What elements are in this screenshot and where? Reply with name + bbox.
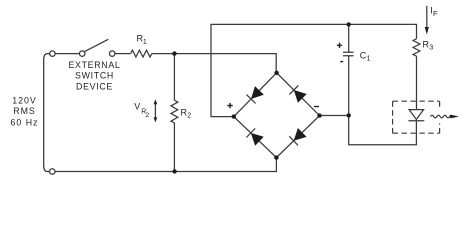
svg-text:F: F <box>433 9 438 18</box>
svg-text:V: V <box>134 102 140 112</box>
svg-text:1: 1 <box>143 39 147 46</box>
svg-text:EXTERNAL: EXTERNAL <box>68 60 120 70</box>
svg-text:60 Hz: 60 Hz <box>11 117 39 127</box>
svg-text:120V: 120V <box>12 95 37 105</box>
svg-text:1: 1 <box>367 55 371 62</box>
svg-text:2: 2 <box>145 112 149 119</box>
svg-text:RMS: RMS <box>13 106 36 116</box>
svg-text:SWITCH: SWITCH <box>75 71 114 81</box>
svg-text:DEVICE: DEVICE <box>76 81 113 91</box>
svg-text:3: 3 <box>429 45 433 52</box>
svg-text:2: 2 <box>187 113 191 120</box>
